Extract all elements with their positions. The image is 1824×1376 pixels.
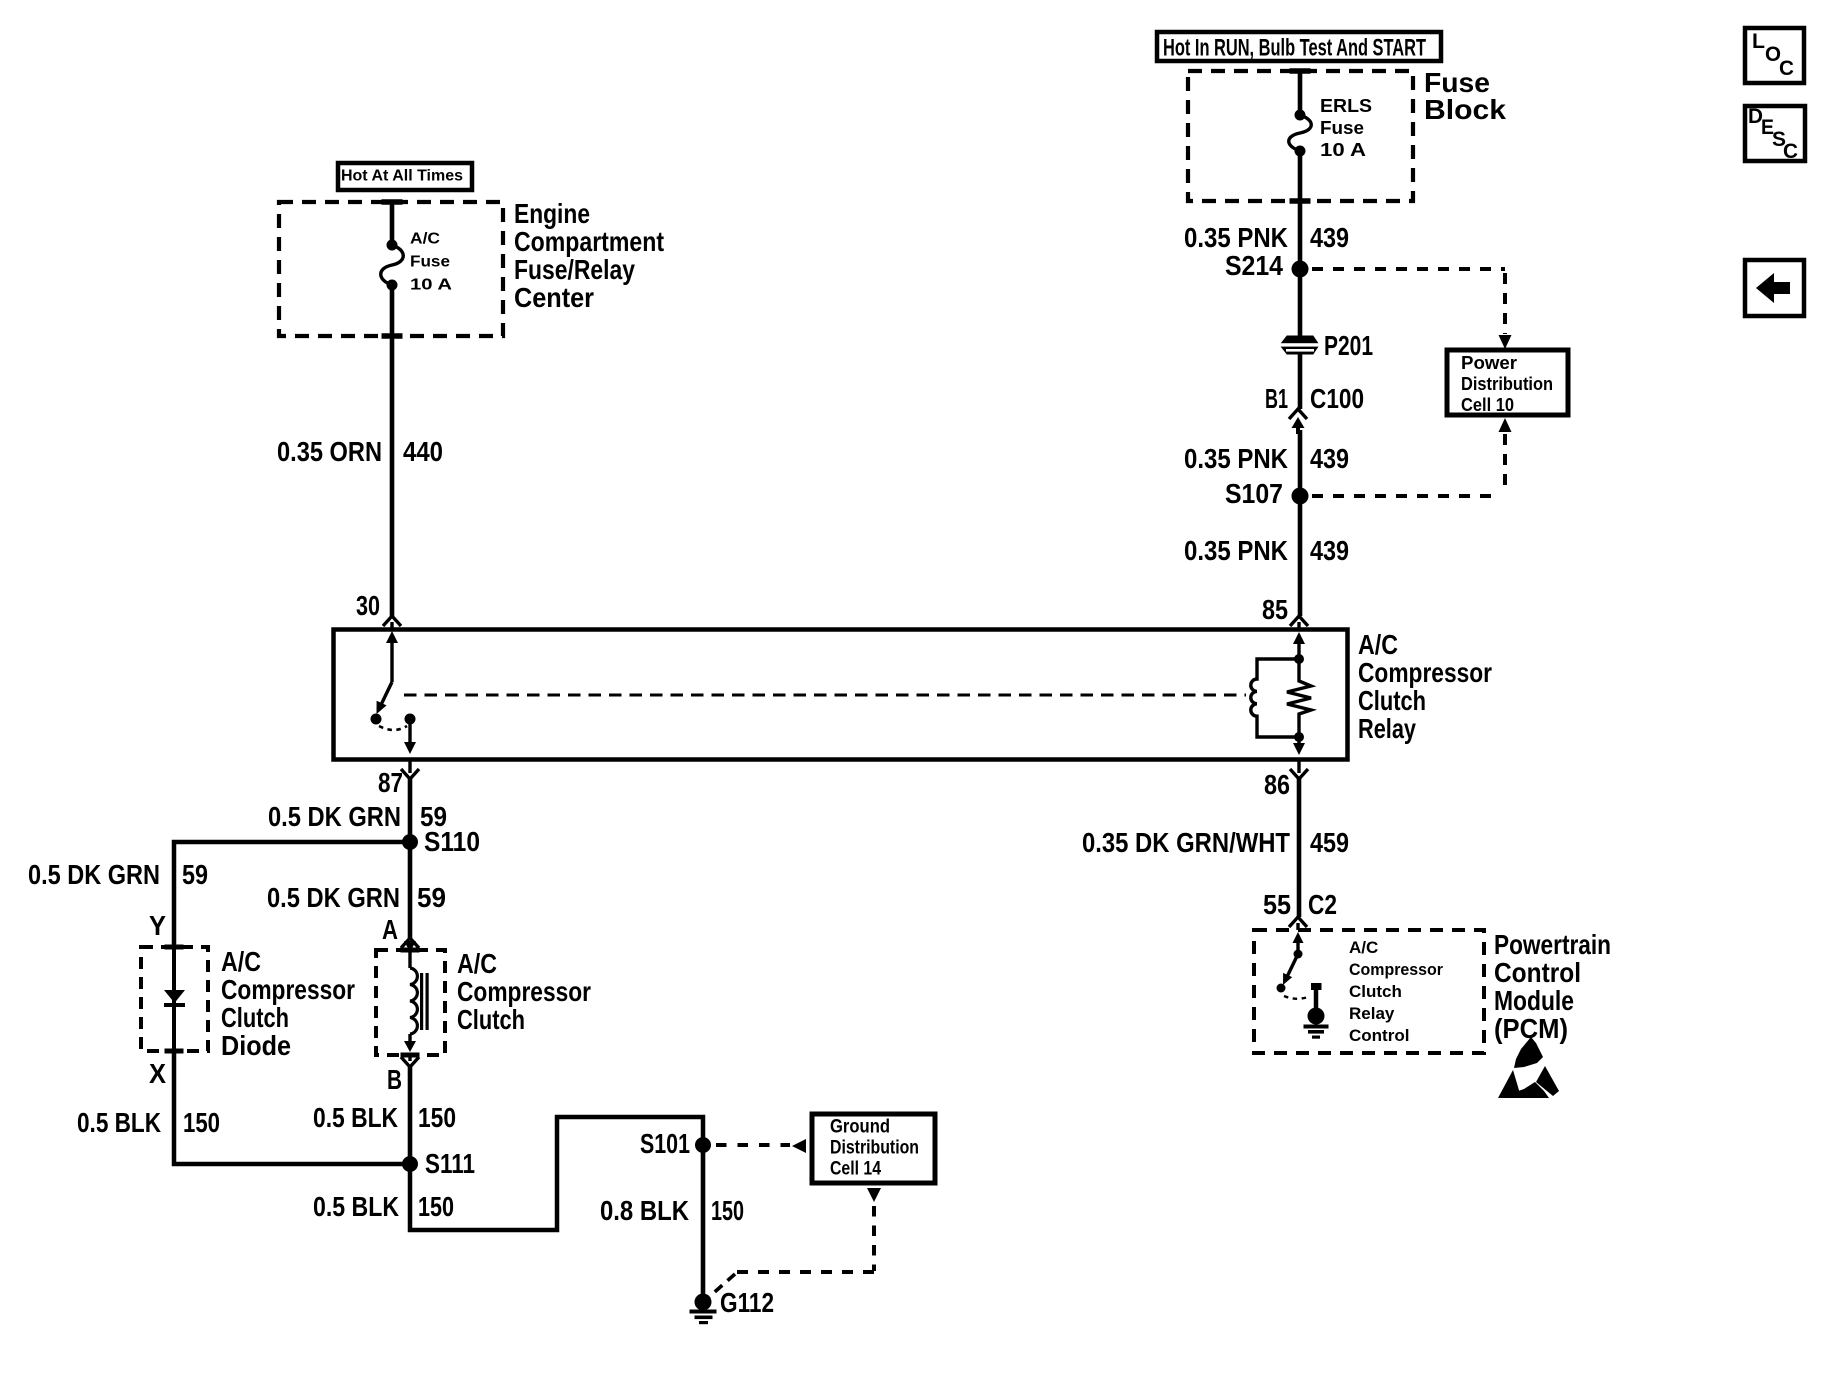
clutch coil winding xyxy=(410,968,417,1034)
PCM internal ground electrode xyxy=(1311,983,1322,990)
wire: circuit 150 clutch B to S111 xyxy=(408,1067,413,1164)
corner icon box back-arrow xyxy=(1745,260,1804,316)
svg-text:Relay: Relay xyxy=(1358,713,1416,744)
wire: circuit 439 fuse to S214 xyxy=(1298,151,1303,269)
in-line connector C100 terminal B1 xyxy=(1289,409,1307,419)
node S107 (splice) xyxy=(1292,488,1309,505)
svg-text:Clutch: Clutch xyxy=(457,1004,525,1035)
svg-text:0.35 PNK: 0.35 PNK xyxy=(1184,443,1288,474)
svg-text:59: 59 xyxy=(417,882,446,913)
clutch core bar 2 xyxy=(426,973,429,1030)
svg-text:150: 150 xyxy=(183,1107,220,1138)
svg-text:Compressor: Compressor xyxy=(221,974,355,1005)
svg-text:Clutch: Clutch xyxy=(1358,685,1426,716)
svg-text:Compressor: Compressor xyxy=(457,976,591,1007)
svg-text:X: X xyxy=(149,1058,166,1089)
svg-text:ERLS: ERLS xyxy=(1320,96,1372,116)
connector chevron at PCM pin 55 C2 xyxy=(1289,917,1307,927)
header box: Hot In RUN, Bulb Test And START xyxy=(1157,32,1441,61)
clutch coil feed arrow xyxy=(404,941,416,952)
wire: circuit 59 S110 to clutch terminal A xyxy=(408,842,413,938)
component box: Powertrain Control Module PCM (dashed) xyxy=(1254,930,1484,1053)
svg-text:Compartment: Compartment xyxy=(514,226,664,257)
tick: wire crossing clutch box top xyxy=(401,948,420,953)
svg-text:Center: Center xyxy=(514,282,594,313)
wire: circuit 150 diode X to S111 row xyxy=(174,1051,410,1164)
svg-text:0.5 BLK: 0.5 BLK xyxy=(313,1102,398,1133)
svg-text:Ground: Ground xyxy=(830,1117,890,1138)
svg-text:439: 439 xyxy=(1310,222,1349,253)
header box: Hot At All Times xyxy=(338,163,472,190)
svg-text:10 A: 10 A xyxy=(1320,140,1366,160)
component box: A/C Compressor Clutch (dashed) xyxy=(376,950,445,1055)
wire: ignition feed into ERLS fuse xyxy=(1298,71,1303,115)
svg-text:439: 439 xyxy=(1310,535,1349,566)
svg-text:Hot In RUN, Bulb Test And STAR: Hot In RUN, Bulb Test And START xyxy=(1163,34,1426,61)
svg-text:C: C xyxy=(1783,140,1798,163)
dashed reference: Ground Distribution Cell 14 to G112 xyxy=(867,1188,881,1202)
svg-text:Fuse: Fuse xyxy=(410,254,450,271)
svg-text:0.8 BLK: 0.8 BLK xyxy=(600,1195,689,1226)
component box: Fuse Block (dashed) xyxy=(1188,71,1413,201)
svg-text:Fuse/Relay: Fuse/Relay xyxy=(514,254,635,285)
PCM driver switch arm xyxy=(1293,932,1304,943)
svg-text:S214: S214 xyxy=(1225,250,1283,281)
connector chevron at relay pin 85 xyxy=(1290,616,1308,626)
svg-text:Relay: Relay xyxy=(1349,1004,1395,1023)
back arrow icon xyxy=(1756,273,1790,303)
svg-text:150: 150 xyxy=(711,1195,744,1226)
ground G112 xyxy=(695,1294,712,1311)
tick: wire crossing diode box bottom xyxy=(165,1049,184,1054)
junction dot coil top xyxy=(1294,654,1304,664)
svg-text:Fuse: Fuse xyxy=(1320,118,1364,138)
component box: Engine Compartment Fuse/Relay Center (dashed) xyxy=(279,202,503,336)
svg-text:150: 150 xyxy=(418,1191,454,1222)
wire: circuit 59 S110 to diode Y (left branch) xyxy=(174,842,410,947)
reference box: Power Distribution Cell 10 xyxy=(1447,350,1568,415)
wire: circuit 439 S107 to relay pin 85 xyxy=(1298,496,1303,616)
svg-text:Clutch: Clutch xyxy=(221,1002,289,1033)
clutch core bar 1 xyxy=(420,973,423,1030)
tick: wire crossing fuse block bottom xyxy=(1290,198,1311,204)
dashed reference: S214 to Power Distribution Cell 10 xyxy=(1312,267,1505,271)
svg-text:C100: C100 xyxy=(1310,383,1364,414)
svg-text:30: 30 xyxy=(356,590,380,621)
relay coil return to pin 86 xyxy=(1297,737,1300,747)
relay coil suppression resistor xyxy=(1287,659,1311,737)
svg-text:A/C: A/C xyxy=(221,946,261,977)
svg-text:C: C xyxy=(1779,57,1794,80)
svg-text:Engine: Engine xyxy=(514,198,590,229)
ESD sensitivity symbol (electrostatic discharge triangle) xyxy=(1514,1037,1543,1068)
relay box: A/C Compressor Clutch Relay xyxy=(334,630,1348,760)
connector chevron at clutch terminal B xyxy=(401,1057,419,1067)
svg-text:A/C: A/C xyxy=(1349,938,1378,957)
svg-text:459: 459 xyxy=(1310,827,1349,858)
node S214 (splice) xyxy=(1292,261,1309,278)
svg-text:A: A xyxy=(382,914,398,945)
svg-text:Powertrain: Powertrain xyxy=(1494,929,1611,960)
svg-text:0.5 DK GRN: 0.5 DK GRN xyxy=(267,882,400,913)
svg-text:87: 87 xyxy=(378,767,403,798)
diode A/C Compressor Clutch Diode (cathode down) xyxy=(164,990,185,1003)
svg-text:0.5 DK GRN: 0.5 DK GRN xyxy=(28,859,160,890)
svg-text:A/C: A/C xyxy=(1358,629,1398,660)
svg-text:Module: Module xyxy=(1494,985,1574,1016)
node S101 (splice) xyxy=(695,1137,711,1153)
svg-text:0.5 BLK: 0.5 BLK xyxy=(313,1191,399,1222)
svg-text:86: 86 xyxy=(1264,769,1290,800)
wire: P201 to connector C100 xyxy=(1298,354,1303,409)
svg-text:B1: B1 xyxy=(1265,383,1288,414)
svg-text:Compressor: Compressor xyxy=(1349,960,1443,979)
dashed throw arc in PCM xyxy=(1284,996,1308,999)
svg-text:59: 59 xyxy=(182,859,208,890)
wire: circuit 150 S101 to ground G112 xyxy=(701,1145,706,1295)
svg-text:55: 55 xyxy=(1263,889,1291,920)
dashed reference: S107 to Power Distribution Cell 10 xyxy=(1499,418,1512,432)
tick: wire crossing diode box top xyxy=(165,945,184,950)
svg-text:Power: Power xyxy=(1461,353,1517,373)
junction dot coil bottom xyxy=(1294,732,1304,742)
wire: circuit 459 relay pin 86 to PCM xyxy=(1297,779,1302,917)
connector chevron at clutch terminal A xyxy=(401,938,419,948)
svg-text:85: 85 xyxy=(1262,594,1288,625)
svg-text:Diode: Diode xyxy=(221,1030,291,1061)
fuse: A/C Fuse 10 A xyxy=(381,245,404,285)
svg-text:C2: C2 xyxy=(1308,889,1337,920)
tick: wire crossing box bottom xyxy=(382,333,403,339)
pass-through grommet P201 xyxy=(1280,336,1319,354)
svg-text:10 A: 10 A xyxy=(410,277,453,294)
fuse: ERLS Fuse 10 A xyxy=(1289,115,1312,151)
wire: circuit 150 S111 to S101 xyxy=(410,1117,703,1230)
svg-text:Cell 10: Cell 10 xyxy=(1461,395,1514,415)
dashed actuation line: relay coil to switch xyxy=(404,694,1246,697)
svg-text:439: 439 xyxy=(1310,443,1349,474)
svg-text:A/C: A/C xyxy=(457,948,497,979)
connector chevron at relay pin 87 xyxy=(401,769,419,779)
dashed switch throw arc xyxy=(379,726,407,730)
connector chevron at relay pin 30 xyxy=(383,616,401,626)
tick: wire crossing clutch box bottom xyxy=(401,1053,420,1058)
PCM switch contact dot xyxy=(1277,984,1286,993)
wire: circuit 439 S214 to P201 xyxy=(1298,269,1303,336)
wire: circuit 59 relay pin 87 to S110 xyxy=(408,779,413,842)
reference box: Ground Distribution Cell 14 xyxy=(812,1114,935,1183)
svg-text:L: L xyxy=(1752,30,1765,53)
svg-text:440: 440 xyxy=(403,436,443,467)
svg-text:P201: P201 xyxy=(1324,330,1373,361)
connector chevron at relay pin 86 xyxy=(1290,769,1308,779)
svg-text:Hot At All Times: Hot At All Times xyxy=(341,168,463,185)
tick: wire crossing box top xyxy=(382,199,403,205)
component box: A/C Compressor Clutch Diode (dashed) xyxy=(141,947,208,1051)
dashed reference: S101 to Ground Distribution Cell 14 xyxy=(716,1143,790,1147)
node S111 (splice) xyxy=(402,1156,418,1172)
svg-text:Block: Block xyxy=(1424,94,1506,125)
svg-text:Compressor: Compressor xyxy=(1358,657,1492,688)
svg-text:0.5 BLK: 0.5 BLK xyxy=(77,1107,161,1138)
relay N.O. contact to pin 87 xyxy=(408,724,411,747)
svg-text:A/C: A/C xyxy=(410,231,440,248)
svg-text:0.35 PNK: 0.35 PNK xyxy=(1184,535,1288,566)
svg-text:Distribution: Distribution xyxy=(1461,374,1553,394)
svg-text:Clutch: Clutch xyxy=(1349,982,1402,1001)
wire: circuit 439 C100 to S107 xyxy=(1298,430,1303,496)
svg-text:S107: S107 xyxy=(1225,478,1283,509)
relay coil feed from pin 85 xyxy=(1293,632,1305,644)
wire: circuit 440 from fuse to relay pin 30 xyxy=(390,285,395,616)
svg-text:0.35 DK GRN/WHT: 0.35 DK GRN/WHT xyxy=(1082,827,1290,858)
corner icon box LOC xyxy=(1745,28,1804,83)
svg-text:B: B xyxy=(387,1064,402,1095)
svg-text:S111: S111 xyxy=(425,1148,475,1179)
relay switch common arm (pin 30 side) xyxy=(386,631,398,643)
tick: wire crossing fuse block top xyxy=(1290,68,1311,74)
relay switch contact dot (N.O. to pin 87) xyxy=(405,714,416,725)
svg-text:150: 150 xyxy=(418,1102,456,1133)
svg-text:0.5 DK GRN: 0.5 DK GRN xyxy=(268,801,401,832)
svg-text:Control: Control xyxy=(1349,1026,1409,1045)
wire through diode box xyxy=(172,947,176,1051)
svg-text:S110: S110 xyxy=(424,826,480,857)
svg-text:G112: G112 xyxy=(720,1287,774,1318)
clutch coil return arrow xyxy=(408,1034,411,1043)
svg-text:0.35 PNK: 0.35 PNK xyxy=(1184,222,1288,253)
svg-text:S101: S101 xyxy=(640,1128,690,1159)
corner icon box DESC xyxy=(1745,106,1805,161)
svg-text:Control: Control xyxy=(1494,957,1581,988)
svg-text:Cell 14: Cell 14 xyxy=(830,1159,881,1180)
wire: battery feed into A/C fuse xyxy=(390,202,395,245)
relay coil winding xyxy=(1251,659,1299,737)
svg-text:Distribution: Distribution xyxy=(830,1138,919,1159)
svg-text:Y: Y xyxy=(149,910,166,941)
node S110 (splice) xyxy=(402,834,418,850)
relay switch contact dot (movable) xyxy=(371,714,382,725)
svg-text:0.35 ORN: 0.35 ORN xyxy=(277,436,382,467)
